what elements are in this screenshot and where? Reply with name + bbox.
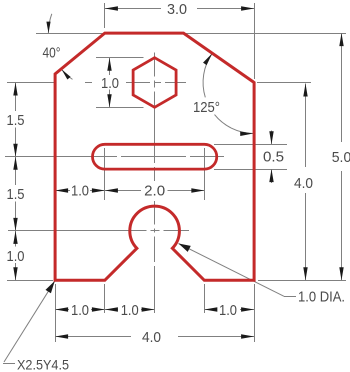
svg-text:1.0: 1.0 [7,248,25,265]
svg-text:1.0: 1.0 [101,75,119,92]
svg-text:1.0: 1.0 [121,302,139,319]
svg-text:125°: 125° [193,99,220,116]
svg-text:4.0: 4.0 [294,175,313,192]
svg-text:1.5: 1.5 [7,112,25,129]
svg-text:1.0: 1.0 [219,302,237,319]
svg-text:1.5: 1.5 [7,186,25,203]
svg-text:4.0: 4.0 [142,329,161,346]
svg-text:0.5: 0.5 [263,149,284,166]
svg-text:1.0: 1.0 [71,302,89,319]
svg-text:3.0: 3.0 [167,1,187,18]
svg-text:2.0: 2.0 [144,182,165,199]
svg-text:1.0 DIA.: 1.0 DIA. [298,289,345,306]
svg-text:5.0: 5.0 [332,149,350,166]
svg-text:40°: 40° [43,44,61,61]
svg-text:X2.5Y4.5: X2.5Y4.5 [17,357,69,372]
svg-text:1.0: 1.0 [71,182,89,199]
